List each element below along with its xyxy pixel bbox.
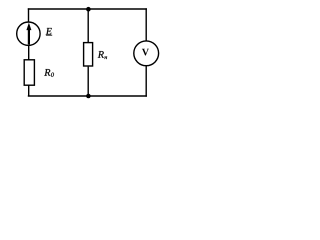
label RN letter R <box>98 51 104 58</box>
wire right branch upper segment <box>145 8 147 41</box>
wire bottom rail <box>28 95 147 97</box>
voltmeter V label <box>142 49 149 56</box>
wire R0 to bottom rail <box>28 85 30 96</box>
wire left branch upper segment <box>28 8 30 22</box>
resistor RN body <box>84 43 93 66</box>
label E (italic) <box>46 28 52 34</box>
EMF source E1 circle <box>17 22 40 45</box>
label RN subscript n <box>105 56 108 59</box>
wire top rail <box>28 8 147 10</box>
resistor R0 body <box>24 60 34 85</box>
wire middle branch lower segment <box>87 67 89 96</box>
wire right branch lower segment <box>145 66 147 97</box>
node junction dot top <box>86 7 91 12</box>
EMF arrow shaft <box>28 29 30 45</box>
wire middle branch upper segment <box>87 9 89 43</box>
node junction dot bottom <box>86 94 91 99</box>
wire source to R0 <box>28 45 30 60</box>
label E underline <box>46 34 52 36</box>
label R0 subscript 0 <box>51 73 54 77</box>
voltmeter V1 circle <box>134 41 159 66</box>
label R0 letter R <box>44 69 50 76</box>
EMF arrowhead <box>26 23 31 31</box>
